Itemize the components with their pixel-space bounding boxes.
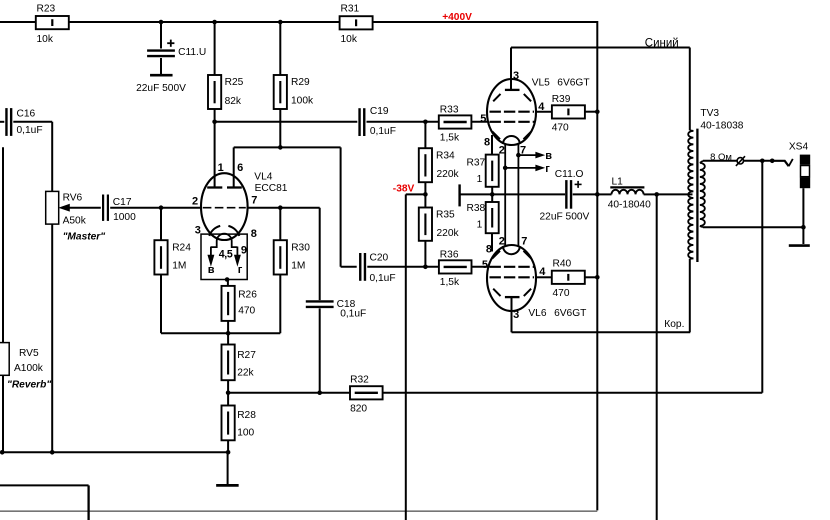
svg-text:0,1uF: 0,1uF bbox=[340, 309, 366, 320]
svg-text:ECC81: ECC81 bbox=[255, 183, 288, 194]
svg-text:6V6GT: 6V6GT bbox=[554, 308, 586, 319]
svg-text:C17: C17 bbox=[113, 197, 132, 208]
svg-text:VL6: VL6 bbox=[528, 308, 546, 319]
svg-text:6: 6 bbox=[237, 162, 243, 174]
svg-text:1M: 1M bbox=[172, 261, 186, 272]
svg-text:в: в bbox=[208, 264, 215, 276]
svg-text:10k: 10k bbox=[37, 34, 54, 45]
svg-text:3: 3 bbox=[195, 225, 201, 237]
svg-text:470: 470 bbox=[552, 123, 569, 134]
svg-text:1,5k: 1,5k bbox=[440, 277, 460, 288]
svg-text:2: 2 bbox=[499, 145, 505, 157]
svg-text:5: 5 bbox=[480, 113, 486, 125]
svg-text:R40: R40 bbox=[553, 258, 572, 269]
svg-text:R38: R38 bbox=[467, 203, 486, 214]
svg-text:100k: 100k bbox=[291, 96, 314, 107]
svg-text:9: 9 bbox=[241, 245, 247, 257]
svg-text:1: 1 bbox=[477, 219, 483, 230]
svg-text:г: г bbox=[545, 163, 550, 175]
svg-text:3: 3 bbox=[513, 309, 519, 321]
svg-text:40-18038: 40-18038 bbox=[700, 121, 743, 132]
svg-text:C16: C16 bbox=[17, 108, 36, 119]
svg-text:8: 8 bbox=[251, 228, 257, 240]
svg-text:RV6: RV6 bbox=[63, 192, 83, 203]
svg-text:R24: R24 bbox=[172, 242, 191, 253]
svg-text:220k: 220k bbox=[437, 169, 460, 180]
svg-text:Кор.: Кор. bbox=[664, 319, 684, 330]
svg-text:TV3: TV3 bbox=[700, 108, 719, 119]
svg-text:10k: 10k bbox=[341, 34, 358, 45]
svg-text:470: 470 bbox=[238, 306, 255, 317]
svg-text:1000: 1000 bbox=[113, 212, 136, 223]
svg-text:100: 100 bbox=[237, 427, 254, 438]
svg-text:-38V: -38V bbox=[393, 183, 415, 194]
svg-text:2: 2 bbox=[192, 195, 198, 207]
svg-text:0,1uF: 0,1uF bbox=[370, 126, 396, 137]
svg-text:0,1uF: 0,1uF bbox=[370, 273, 396, 284]
svg-text:R23: R23 bbox=[37, 4, 56, 15]
svg-text:220k: 220k bbox=[437, 228, 460, 239]
svg-text:1: 1 bbox=[477, 174, 483, 185]
svg-text:22uF 500V: 22uF 500V bbox=[540, 211, 590, 222]
svg-text:"Master": "Master" bbox=[63, 231, 106, 242]
svg-text:8 Ом: 8 Ом bbox=[710, 152, 732, 163]
svg-text:6V6GT: 6V6GT bbox=[557, 78, 589, 89]
svg-text:4: 4 bbox=[538, 101, 545, 113]
svg-text:R31: R31 bbox=[341, 4, 360, 15]
svg-text:R34: R34 bbox=[436, 150, 455, 161]
svg-text:1M: 1M bbox=[291, 261, 305, 272]
svg-text:4,5: 4,5 bbox=[219, 249, 233, 261]
svg-text:R33: R33 bbox=[440, 105, 459, 116]
svg-text:R35: R35 bbox=[436, 210, 455, 221]
svg-text:R27: R27 bbox=[237, 350, 256, 361]
svg-text:8: 8 bbox=[486, 243, 492, 255]
svg-text:R37: R37 bbox=[467, 157, 486, 168]
svg-text:7: 7 bbox=[521, 235, 527, 247]
svg-text:40-18040: 40-18040 bbox=[608, 200, 651, 211]
svg-text:2: 2 bbox=[499, 235, 505, 247]
svg-text:R36: R36 bbox=[440, 249, 459, 260]
svg-text:VL4: VL4 bbox=[254, 171, 272, 182]
svg-text:R30: R30 bbox=[291, 242, 310, 253]
svg-text:R39: R39 bbox=[552, 94, 571, 105]
svg-text:470: 470 bbox=[553, 288, 570, 299]
svg-text:A50k: A50k bbox=[63, 216, 87, 227]
svg-text:R28: R28 bbox=[237, 410, 256, 421]
svg-text:22uF 500V: 22uF 500V bbox=[136, 83, 186, 94]
svg-text:в: в bbox=[545, 150, 552, 162]
svg-text:22k: 22k bbox=[237, 367, 254, 378]
svg-text:1: 1 bbox=[218, 162, 224, 174]
svg-text:RV5: RV5 bbox=[19, 348, 39, 359]
svg-text:"Reverb": "Reverb" bbox=[7, 379, 51, 390]
svg-text:R29: R29 bbox=[291, 77, 310, 88]
svg-text:1,5k: 1,5k bbox=[440, 132, 460, 143]
svg-text:VL5: VL5 bbox=[532, 78, 550, 89]
svg-text:0,1uF: 0,1uF bbox=[17, 125, 43, 136]
svg-text:Синий: Синий bbox=[645, 37, 679, 49]
svg-text:820: 820 bbox=[350, 403, 367, 414]
svg-text:7: 7 bbox=[251, 195, 257, 207]
svg-text:C19: C19 bbox=[370, 106, 389, 117]
svg-text:XS4: XS4 bbox=[789, 142, 809, 153]
svg-text:5: 5 bbox=[482, 259, 488, 271]
svg-text:R26: R26 bbox=[238, 289, 257, 300]
svg-text:3: 3 bbox=[513, 70, 519, 82]
svg-text:C11.U: C11.U bbox=[178, 47, 206, 58]
svg-text:R25: R25 bbox=[225, 77, 244, 88]
svg-text:г: г bbox=[238, 264, 243, 276]
svg-text:7: 7 bbox=[520, 145, 526, 157]
svg-text:4: 4 bbox=[539, 266, 546, 278]
svg-text:C11.O: C11.O bbox=[555, 169, 584, 180]
svg-text:R32: R32 bbox=[350, 375, 369, 386]
svg-text:+400V: +400V bbox=[442, 12, 472, 23]
svg-text:82k: 82k bbox=[225, 96, 242, 107]
svg-text:L1: L1 bbox=[612, 176, 624, 187]
svg-text:8: 8 bbox=[484, 136, 490, 148]
svg-text:C20: C20 bbox=[370, 253, 389, 264]
svg-text:A100k: A100k bbox=[14, 363, 44, 374]
